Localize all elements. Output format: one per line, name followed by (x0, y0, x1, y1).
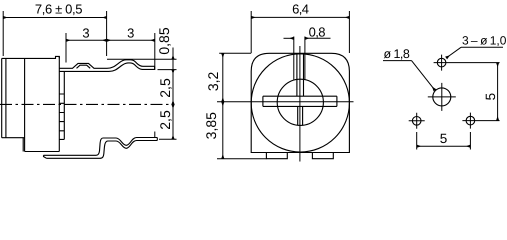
svg-text:0,85: 0,85 (156, 27, 172, 54)
svg-text:6,4: 6,4 (292, 2, 309, 17)
svg-text:3: 3 (82, 25, 89, 40)
leader line for ø 1,8 (383, 60, 412, 62)
centerline (dashed) left view (0, 103, 171, 105)
top lead (upper outline) (59, 60, 154, 69)
bottom-left crosshairs (409, 113, 425, 129)
svg-text:5: 5 (483, 93, 498, 101)
dimension 2,5 (lower) (172, 104, 174, 139)
bottom lead plate under body (two lines, rounded left end) (44, 155, 97, 158)
svg-text:3,2: 3,2 (205, 71, 221, 91)
body rounded square (251, 53, 349, 152)
big hole ø1,8 (433, 88, 451, 106)
dimension 0,8 arrows (outside) (284, 37, 294, 39)
top lead crimp inner line (77, 65, 91, 68)
svg-text:2,5: 2,5 (157, 110, 173, 130)
top small hole (437, 58, 446, 67)
bottom lead end cap (156, 138, 158, 141)
bottom-right small hole (466, 116, 475, 125)
bottom-left small hole (412, 117, 421, 126)
svg-text:2,5: 2,5 (157, 78, 173, 98)
horizontal dimension 5 extension lines (417, 132, 471, 150)
dimension 3 (left) (65, 33, 67, 63)
svg-text:ø 1,8: ø 1,8 (384, 47, 410, 61)
left foot (266, 153, 287, 159)
svg-text:7,6 ± 0,5: 7,6 ± 0,5 (35, 1, 82, 16)
dimension 3,2 (222, 53, 224, 101)
dim line continuation through 0,85 gap (172, 59, 174, 69)
svg-text:0,8: 0,8 (309, 24, 326, 39)
big hole crosshairs (428, 83, 456, 111)
top hole crosshairs + right extension (434, 55, 500, 71)
body right wall (58, 56, 60, 151)
bottom-right crosshairs + right extension (462, 113, 499, 129)
bottom lead rise and wave (upper outline) (96, 138, 157, 156)
horizontal dimension 5 (417, 145, 471, 147)
body top line (2, 56, 60, 58)
svg-text:5: 5 (440, 131, 448, 146)
svg-text:3–ø1,0: 3–ø1,0 (462, 34, 507, 48)
case inner wall lower (22, 138, 24, 152)
svg-text:3: 3 (127, 25, 134, 40)
dimension 6,4 (251, 11, 349, 53)
dimension 2,5 (lower) extension (159, 138, 177, 140)
dimension 2,5 (upper) (172, 70, 174, 105)
slot cross vertical arm (upper and lower) (297, 54, 304, 125)
big rotor circle (251, 54, 349, 152)
dimension 3,85 (222, 102, 224, 159)
rotor plate (left thin rectangle) (2, 58, 25, 137)
top extension line (left) (219, 52, 251, 54)
horizontal centerline (217, 101, 354, 103)
dimension 0,8 extension lines (294, 37, 305, 80)
bottom lead rise and wave (lower outline) (96, 141, 157, 159)
top lead end cap (154, 66, 156, 69)
slot bar (263, 96, 337, 106)
top lead (lower outline) (59, 63, 154, 72)
medium circle (277, 79, 323, 125)
right foot (312, 153, 333, 159)
vertical dimension 5 (497, 63, 499, 121)
side clip outer wall (59, 72, 64, 140)
feet bottom extension line (217, 158, 267, 160)
dimension 0,85 arrow above (172, 48, 174, 60)
vertical centerline (299, 46, 301, 162)
dimension 0,85 extension lines (107, 59, 177, 69)
leader line for 3 - ø 1,0 (461, 46, 503, 48)
dimension 7,6 ± 0,5 (3, 11, 106, 56)
case front wall (24, 58, 26, 151)
svg-text:3,85: 3,85 (203, 112, 219, 139)
dimension 3 (right) (154, 33, 156, 137)
body bottom line (25, 151, 60, 153)
